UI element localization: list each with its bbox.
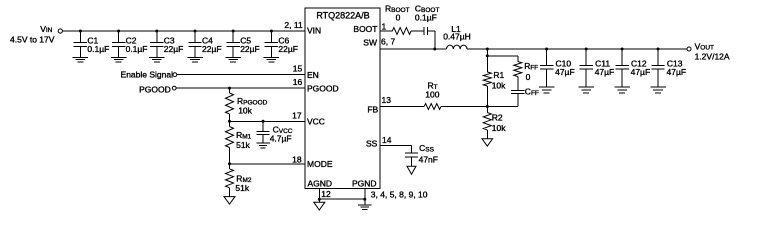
label CBOOT — [415, 4, 440, 15]
label RT — [428, 81, 438, 92]
label Enable Signal — [121, 70, 174, 80]
label RM1 value 51k — [236, 140, 250, 150]
label RPGOOD value 10k — [238, 106, 252, 116]
label C6 value — [278, 44, 298, 54]
svg-text:RTQ2822A/B: RTQ2822A/B — [316, 10, 369, 20]
svg-text:VIN: VIN — [40, 24, 52, 34]
svg-text:51k: 51k — [235, 183, 249, 193]
pin name SW — [363, 38, 377, 48]
node junction output rail / R1 — [486, 48, 489, 51]
input terminal Enable Signal — [173, 73, 177, 77]
label U1 RTQ2822A/B — [316, 10, 369, 20]
svg-text:47µF: 47µF — [595, 67, 615, 77]
svg-text:13: 13 — [382, 95, 392, 105]
pin name VCC — [307, 117, 325, 127]
svg-text:2, 11: 2, 11 — [284, 20, 303, 30]
svg-text:PGOOD: PGOOD — [139, 84, 171, 94]
pin number 6, 7 (SW) — [381, 36, 395, 46]
ground (earth) under C2 — [111, 57, 127, 62]
node junction CBOOT / SW rail — [433, 48, 436, 51]
node junction CVCC / VCC — [262, 120, 265, 123]
pin number 12 (AGND) — [321, 189, 331, 199]
node junction VIN rail / C3 — [155, 30, 158, 33]
label C3 — [164, 36, 175, 46]
label C10 — [556, 59, 572, 69]
svg-text:15: 15 — [293, 64, 303, 74]
label C2 value — [126, 44, 148, 54]
ground (earth) under C3 — [149, 57, 165, 62]
resistor RM2 — [226, 164, 234, 197]
svg-text:PGOOD: PGOOD — [307, 83, 339, 93]
wire EN — [177, 74, 305, 76]
node junction VIN rail / C5 — [232, 30, 235, 33]
wire FB — [380, 106, 424, 108]
pin name BOOT — [353, 24, 377, 34]
pin name PGND — [352, 178, 377, 188]
ground (earth) under C5 — [225, 57, 241, 62]
label R1 — [493, 70, 504, 80]
label RM2 value 51k — [235, 183, 249, 193]
svg-text:14: 14 — [382, 135, 392, 145]
wire VIN rail — [62, 30, 304, 32]
label C5 — [240, 36, 251, 46]
label CVCC value 4.7uF — [270, 134, 292, 144]
svg-text:51k: 51k — [236, 140, 250, 150]
svg-text:0.1µF: 0.1µF — [87, 44, 109, 54]
label L1 value 0.47uH — [443, 31, 471, 41]
input terminal PGOOD — [172, 86, 176, 90]
node junction output rail / C13 — [657, 48, 660, 51]
wire PGOOD — [176, 87, 305, 89]
wire AGND-PGND link — [319, 198, 365, 200]
svg-text:0: 0 — [526, 72, 531, 82]
capacitor C4 — [188, 31, 201, 57]
pin number 13 (FB) — [382, 95, 392, 105]
pin name FB — [367, 105, 378, 115]
svg-text:R2: R2 — [492, 113, 503, 123]
ground (earth) under C12 — [614, 87, 630, 93]
label L1 — [451, 24, 461, 34]
wire SS — [380, 145, 412, 147]
svg-text:FB: FB — [367, 105, 378, 115]
label C10 value 47uF — [555, 67, 575, 77]
pin number 17 (VCC) — [292, 111, 302, 121]
label RBOOT value 0 — [396, 13, 401, 23]
label VOUT — [695, 42, 714, 52]
capacitor C2 — [112, 31, 125, 57]
wire stub to RFF — [487, 55, 518, 57]
pin name MODE — [307, 159, 333, 169]
svg-text:4.5V to 17V: 4.5V to 17V — [10, 34, 55, 44]
label C13 value 47uF — [667, 67, 687, 77]
label C1 — [87, 36, 98, 46]
resistor RPGOOD — [226, 88, 234, 121]
node junction AGND link — [318, 198, 321, 201]
capacitor CSS — [405, 146, 418, 167]
pin name EN — [307, 70, 319, 80]
svg-text:VCC: VCC — [307, 117, 325, 127]
label RBOOT — [385, 4, 410, 15]
node junction output rail / C10 — [545, 48, 548, 51]
wire CBOOT to SW node — [428, 31, 435, 49]
node junction output rail / C12 — [621, 48, 624, 51]
label C1 value — [87, 44, 109, 54]
svg-text:VIN: VIN — [307, 26, 321, 36]
label C12 — [631, 59, 647, 69]
svg-text:R1: R1 — [493, 70, 504, 80]
label C13 — [667, 59, 683, 69]
svg-text:0: 0 — [396, 13, 401, 23]
pin name PGOOD — [307, 83, 339, 93]
wire AGND pin 12 — [318, 189, 320, 203]
ground (triangle) under CSS — [407, 166, 416, 174]
ground (triangle) under RM2 — [224, 197, 235, 205]
node junction VIN rail / C4 — [194, 30, 197, 33]
label C4 value — [202, 44, 222, 54]
ground (earth) PGND — [358, 205, 372, 210]
label C2 — [126, 36, 137, 46]
resistor R2 — [483, 107, 491, 139]
svg-text:0.1µF: 0.1µF — [415, 13, 437, 23]
wire SW — [380, 48, 447, 50]
input terminal VIN — [58, 29, 62, 33]
ground (triangle) under R2 — [482, 139, 493, 146]
svg-text:VOUT: VOUT — [695, 42, 714, 52]
svg-text:22µF: 22µF — [202, 44, 222, 54]
capacitor C5 — [227, 31, 240, 57]
label C4 — [202, 36, 213, 46]
wire MODE — [230, 163, 305, 165]
wire BOOT — [380, 30, 393, 32]
inductor L1 — [447, 45, 468, 49]
node junction VIN rail / C2 — [117, 30, 120, 33]
svg-text:1.2V/12A: 1.2V/12A — [695, 51, 730, 61]
ground (earth) under C13 — [650, 87, 666, 93]
svg-text:10k: 10k — [492, 81, 506, 91]
wire R1 top stem — [486, 49, 488, 72]
svg-text:12: 12 — [321, 189, 331, 199]
label CSS — [419, 143, 434, 154]
label CBOOT value 0.1uF — [415, 13, 437, 23]
label C12 value 47uF — [631, 67, 651, 77]
capacitor C12 — [615, 49, 628, 87]
svg-text:47µF: 47µF — [555, 67, 575, 77]
capacitor CFF — [511, 90, 524, 106]
svg-text:47µF: 47µF — [667, 67, 687, 77]
svg-text:0.1µF: 0.1µF — [126, 44, 148, 54]
resistor RM1 — [226, 121, 234, 164]
wire PGND pins — [364, 189, 366, 205]
svg-text:4.7µF: 4.7µF — [270, 134, 292, 144]
pin number 16 (PGOOD) — [293, 77, 303, 87]
pin number 15 (EN) — [293, 64, 303, 74]
label C11 value 47uF — [595, 67, 615, 77]
ground (earth) under C4 — [187, 57, 203, 62]
svg-text:EN: EN — [307, 70, 319, 80]
label PGOOD — [139, 84, 171, 94]
label C11 — [595, 59, 610, 69]
pin number 3, 4, 5, 8, 9, 10 (PGND) — [371, 189, 428, 199]
svg-text:0.47µH: 0.47µH — [443, 31, 471, 41]
wire CFF to FB node — [487, 106, 518, 108]
wire RT to FB node — [441, 106, 487, 108]
capacitor C11 — [580, 49, 593, 87]
svg-text:1: 1 — [382, 21, 387, 31]
label R2 value 10k — [492, 123, 506, 133]
label RFF value 0 — [526, 72, 531, 82]
svg-text:3, 4, 5, 8, 9, 10: 3, 4, 5, 8, 9, 10 — [371, 189, 428, 199]
capacitor CVCC — [256, 121, 269, 143]
capacitor CBOOT — [424, 27, 427, 35]
label CVCC — [273, 125, 293, 136]
svg-text:SS: SS — [366, 139, 378, 149]
svg-text:22µF: 22µF — [240, 44, 260, 54]
ground (earth) under C1 — [73, 57, 89, 62]
resistor RT — [424, 104, 441, 110]
node junction VIN rail / C1 — [79, 30, 82, 33]
pin name SS — [366, 139, 378, 149]
label R2 — [492, 113, 503, 123]
wire VCC — [230, 120, 305, 122]
resistor RBOOT — [392, 28, 411, 35]
pin number 2, 11 (VIN) — [284, 20, 303, 30]
label CSS value 47nF — [419, 155, 438, 165]
node junction VIN rail / C6 — [270, 30, 273, 33]
label C5 value — [240, 44, 260, 54]
svg-text:AGND: AGND — [308, 178, 333, 188]
svg-text:MODE: MODE — [307, 159, 333, 169]
svg-text:PGND: PGND — [352, 178, 377, 188]
svg-text:47µF: 47µF — [631, 67, 651, 77]
node junction output rail / C11 — [585, 48, 588, 51]
svg-text:Enable Signal: Enable Signal — [121, 70, 174, 80]
pin name VIN — [307, 26, 321, 36]
label C6 — [278, 36, 289, 46]
pin number 18 (MODE) — [292, 155, 302, 165]
label RFF — [524, 61, 538, 72]
svg-text:16: 16 — [293, 77, 303, 87]
pin name AGND — [308, 178, 333, 188]
svg-text:22µF: 22µF — [278, 44, 298, 54]
node junction PGOOD / RPGOOD — [228, 87, 231, 90]
resistor R1 — [483, 72, 491, 107]
output terminal VOUT — [687, 47, 691, 51]
node junction PGND link — [363, 198, 366, 201]
capacitor C10 — [540, 49, 553, 87]
pin number 14 (SS) — [382, 135, 392, 145]
wire output rail — [467, 48, 687, 50]
node junction FB / R1 / R2 — [486, 105, 489, 108]
svg-text:CSS: CSS — [419, 143, 434, 154]
capacitor C3 — [150, 31, 163, 57]
ground (triangle) AGND — [314, 202, 325, 210]
svg-text:BOOT: BOOT — [353, 24, 377, 34]
label VOUT rating 1.2V/12A — [695, 51, 730, 61]
label C3 value — [164, 44, 184, 54]
svg-text:SW: SW — [363, 38, 377, 48]
label RT value 100 — [425, 90, 439, 100]
node junction RPGOOD / VCC — [228, 120, 231, 123]
svg-text:CFF: CFF — [525, 87, 539, 98]
svg-text:47nF: 47nF — [419, 155, 438, 165]
resistor RFF — [514, 56, 522, 91]
svg-text:6, 7: 6, 7 — [381, 36, 395, 46]
svg-text:RFF: RFF — [524, 61, 538, 72]
label CFF — [525, 87, 539, 98]
svg-text:22µF: 22µF — [164, 44, 184, 54]
node junction R1 stem / RFF stub — [486, 54, 489, 57]
label R1 value 10k — [492, 81, 506, 91]
svg-text:10k: 10k — [238, 106, 252, 116]
svg-text:17: 17 — [292, 111, 302, 121]
svg-text:10k: 10k — [492, 123, 506, 133]
label VIN — [40, 24, 52, 34]
label RM1 — [236, 130, 252, 141]
capacitor C13 — [651, 49, 664, 87]
ground (earth) under CVCC — [256, 143, 270, 148]
ground (earth) under C6 — [264, 57, 280, 62]
wire RBOOT-CBOOT — [411, 30, 424, 32]
ground (earth) under C11 — [578, 87, 594, 93]
svg-text:18: 18 — [292, 155, 302, 165]
IC U1 RTQ2822A/B body — [305, 8, 380, 188]
ground (earth) under C10 — [539, 87, 555, 93]
capacitor C1 — [74, 31, 87, 57]
svg-text:100: 100 — [425, 90, 439, 100]
label RPGOOD — [237, 96, 268, 107]
label VIN voltage range — [10, 34, 55, 44]
capacitor C6 — [265, 31, 278, 57]
node junction RM1 / MODE — [228, 162, 231, 165]
label RM2 — [236, 174, 252, 185]
pin number 1 (BOOT) — [382, 21, 387, 31]
